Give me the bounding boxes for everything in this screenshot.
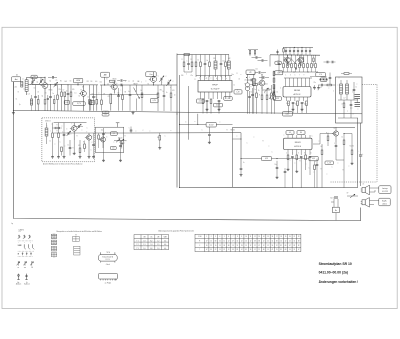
resistor R18 bbox=[225, 62, 227, 67]
svg-text:10u: 10u bbox=[275, 164, 277, 166]
resistor R24 bbox=[315, 64, 317, 68]
capacitor C2 bbox=[49, 96, 52, 98]
wire AF level link bbox=[241, 158, 262, 160]
resistor R20 bbox=[210, 99, 212, 104]
svg-text:C: C bbox=[186, 74, 187, 76]
wire right block verticals join bbox=[335, 152, 337, 160]
svg-text:6k8: 6k8 bbox=[65, 81, 67, 83]
svg-text:15: 15 bbox=[219, 249, 221, 251]
ground C33 bbox=[103, 159, 105, 160]
resistor R47 bbox=[55, 127, 60, 129]
label box speaker 1 bbox=[379, 186, 391, 194]
resistor R42 bbox=[191, 62, 193, 67]
ground R36 bbox=[296, 170, 298, 171]
coil L7 transformer primary bbox=[340, 84, 343, 94]
label box AM bbox=[101, 72, 110, 77]
svg-text:o: o bbox=[284, 135, 285, 137]
svg-text:C7: C7 bbox=[63, 90, 65, 92]
resistor R26 bbox=[297, 101, 299, 106]
svg-text:10: 10 bbox=[245, 236, 247, 238]
svg-text:8: 8 bbox=[304, 153, 305, 155]
resistor R3 bbox=[61, 92, 63, 97]
svg-text:22: 22 bbox=[276, 245, 278, 247]
wire speaker 2 links bbox=[370, 199, 379, 201]
capacitor C55 AM unit bbox=[121, 142, 123, 144]
svg-text:Ta 7642 F: Ta 7642 F bbox=[211, 89, 221, 91]
svg-text:0,1: 0,1 bbox=[105, 114, 107, 116]
svg-text:o: o bbox=[338, 85, 339, 87]
svg-text:St.: St. bbox=[26, 281, 28, 284]
svg-text:2n: 2n bbox=[174, 95, 176, 97]
svg-text:68: 68 bbox=[285, 249, 287, 251]
coil L8 transformer secondary bbox=[346, 84, 349, 94]
ground IC2 b bbox=[301, 108, 303, 109]
svg-text:1k: 1k bbox=[198, 60, 200, 62]
svg-text:ZF2: ZF2 bbox=[228, 58, 231, 60]
svg-text:Messpunkte zur schnellen Fehle: Messpunkte zur schnellen Fehlersuche bei… bbox=[57, 230, 103, 233]
svg-text:R: R bbox=[263, 141, 264, 143]
ground antenna input bbox=[12, 112, 14, 113]
wire RF node dots bbox=[44, 77, 45, 78]
svg-text:8,6 V: 8,6 V bbox=[286, 113, 291, 115]
svg-text:6,7: 6,7 bbox=[52, 244, 54, 246]
svg-text:R: R bbox=[57, 131, 58, 133]
svg-text:1: 1 bbox=[206, 236, 207, 238]
resistor R36 bbox=[296, 155, 298, 160]
svg-text:C: C bbox=[247, 143, 248, 145]
svg-text:11: 11 bbox=[250, 236, 252, 238]
label box top small bbox=[31, 75, 37, 78]
ground mid rail bbox=[132, 111, 134, 112]
svg-text:R: R bbox=[195, 79, 196, 81]
svg-text:o: o bbox=[99, 93, 100, 95]
resistor R32 bbox=[61, 147, 63, 152]
svg-text:C: C bbox=[332, 167, 333, 169]
svg-text:o: o bbox=[237, 136, 238, 138]
svg-text:R: R bbox=[237, 73, 238, 75]
svg-text:8k2: 8k2 bbox=[157, 137, 159, 139]
label box IC3 a bbox=[286, 131, 294, 135]
dashed feedback line vertical bbox=[376, 85, 378, 183]
svg-text:0,5: 0,5 bbox=[52, 250, 54, 252]
svg-text:1k: 1k bbox=[342, 137, 344, 139]
ground IC2 a bbox=[292, 108, 294, 109]
svg-text:1n: 1n bbox=[356, 87, 358, 89]
svg-text:15: 15 bbox=[276, 249, 278, 251]
svg-text:30 mV: 30 mV bbox=[209, 124, 215, 126]
svg-text:10k: 10k bbox=[269, 89, 271, 91]
svg-text:1n5: 1n5 bbox=[95, 81, 97, 83]
resistor R13 bbox=[157, 93, 159, 98]
dashed enclosure UKW tuner unit bbox=[42, 118, 95, 162]
svg-text:o: o bbox=[150, 130, 151, 132]
svg-text:BB109: BB109 bbox=[134, 84, 138, 86]
coil L2 input filter bbox=[25, 80, 28, 92]
svg-text:47: 47 bbox=[289, 245, 291, 247]
capacitor C45 bbox=[34, 96, 37, 98]
svg-text:12: 12 bbox=[267, 245, 269, 247]
resistor R34 bbox=[159, 136, 161, 141]
wire output stage left feed bbox=[269, 55, 271, 67]
wire top rail output stage bbox=[270, 54, 320, 56]
svg-text:BB: BB bbox=[138, 81, 140, 83]
capacitor C34 bbox=[119, 145, 122, 147]
svg-text:C: C bbox=[315, 161, 316, 163]
wire transformer bottom rail bbox=[338, 117, 358, 119]
resistor R1 bbox=[37, 100, 39, 105]
svg-text:R: R bbox=[326, 133, 327, 135]
svg-text:4p: 4p bbox=[37, 82, 39, 84]
label box 9V bbox=[275, 61, 281, 64]
svg-text:an: an bbox=[17, 267, 19, 269]
svg-text:1,6: 1,6 bbox=[143, 248, 145, 250]
svg-text:C: C bbox=[293, 52, 294, 54]
capacitor C22 bbox=[278, 63, 281, 65]
svg-text:NFGR: NFGR bbox=[295, 142, 301, 144]
capacitor C4 bbox=[67, 93, 70, 95]
wire demod node links bbox=[247, 73, 256, 75]
svg-text:C: C bbox=[91, 150, 92, 152]
label box UKW out voltage bbox=[110, 132, 117, 136]
capacitor C7 bbox=[120, 84, 122, 87]
svg-text:A 210 E: A 210 E bbox=[294, 145, 301, 148]
svg-text:C: C bbox=[309, 52, 310, 54]
svg-text:1 3 5 2 4: 1 3 5 2 4 bbox=[105, 259, 110, 261]
svg-text:R: R bbox=[285, 52, 286, 54]
svg-text:C: C bbox=[165, 136, 166, 138]
resistor R8 tall bbox=[110, 94, 112, 104]
svg-text:C: C bbox=[199, 78, 200, 80]
svg-text:14: 14 bbox=[263, 236, 265, 238]
svg-text:0411.00–00.00 (2a): 0411.00–00.00 (2a) bbox=[319, 271, 348, 275]
svg-text:Ant: Ant bbox=[15, 78, 18, 81]
svg-text:L2: L2 bbox=[24, 89, 26, 91]
resistor R39 bbox=[343, 140, 345, 145]
svg-text:R1: R1 bbox=[60, 81, 62, 83]
resistor R30 bbox=[52, 133, 54, 138]
svg-text:o: o bbox=[226, 78, 227, 80]
capacitor C54 bbox=[240, 168, 243, 170]
svg-text:R: R bbox=[259, 95, 260, 97]
DIN connector strip bbox=[99, 273, 118, 279]
resistor R29 bbox=[343, 103, 345, 108]
resistor R19 bbox=[202, 99, 204, 104]
resistor R7 bbox=[96, 100, 98, 105]
svg-text:17: 17 bbox=[276, 236, 278, 238]
capacitor C9 bbox=[129, 94, 132, 96]
wire AF in drop bbox=[240, 133, 242, 168]
svg-text:2,1 V: 2,1 V bbox=[199, 101, 203, 103]
svg-text:o: o bbox=[55, 144, 56, 146]
svg-text:5n: 5n bbox=[251, 92, 253, 94]
svg-text:39k: 39k bbox=[160, 90, 162, 92]
svg-text:UKW M: UKW M bbox=[19, 229, 25, 231]
capacitor C23 bbox=[292, 102, 295, 104]
transformer circle pair bbox=[245, 83, 249, 87]
resistor R16 bbox=[200, 62, 202, 67]
label box voltage IC1 bbox=[224, 97, 232, 101]
svg-text:R: R bbox=[73, 148, 74, 150]
ground UKW 3 bbox=[73, 152, 75, 153]
svg-text:10: 10 bbox=[245, 240, 247, 242]
transistor T9 UKW 2 bbox=[86, 135, 91, 140]
svg-text:C: C bbox=[158, 76, 159, 78]
AF block enclosure bbox=[233, 127, 356, 187]
svg-text:1k: 1k bbox=[234, 85, 236, 87]
svg-text:6,8: 6,8 bbox=[150, 248, 152, 250]
svg-text:C3: C3 bbox=[34, 88, 36, 90]
capacitor C21 bbox=[261, 59, 263, 62]
svg-text:M: M bbox=[18, 254, 20, 256]
svg-text:GY: GY bbox=[347, 193, 349, 195]
svg-text:C 100: C 100 bbox=[198, 236, 202, 238]
resistor R5 bbox=[70, 92, 72, 97]
svg-text:T3: T3 bbox=[112, 82, 114, 84]
resistor R27 bbox=[306, 101, 308, 106]
svg-text:TB TA: TB TA bbox=[106, 251, 110, 254]
svg-text:12: 12 bbox=[228, 249, 230, 251]
resistor R41 bbox=[183, 62, 185, 67]
svg-text:C: C bbox=[47, 126, 48, 128]
resistor R25 bbox=[288, 101, 290, 106]
svg-text:47: 47 bbox=[206, 249, 208, 251]
capacitor C31 trimmer UKW bbox=[67, 132, 69, 135]
resistor R53 bbox=[53, 100, 55, 104]
svg-text:10n: 10n bbox=[295, 104, 297, 106]
svg-text:10n: 10n bbox=[223, 61, 225, 63]
wire T10 collector link bbox=[344, 133, 352, 135]
label box voltage low bbox=[102, 111, 109, 113]
capacitor C26 bbox=[329, 77, 332, 79]
resistor R49 bbox=[351, 150, 353, 155]
svg-text:o: o bbox=[171, 130, 172, 132]
capacitor C41 bbox=[335, 145, 338, 147]
transistor T3 AM mixer bbox=[111, 84, 117, 90]
svg-text:47: 47 bbox=[298, 249, 300, 251]
winding ticks right bbox=[355, 94, 361, 96]
resistor R31 bbox=[58, 133, 60, 138]
svg-text:240: 240 bbox=[15, 87, 17, 89]
label box voltage IC1 b bbox=[214, 103, 223, 107]
label box Osz bbox=[146, 72, 156, 77]
svg-text:C: C bbox=[202, 130, 203, 132]
svg-text:C: C bbox=[334, 143, 335, 145]
svg-text:5: 5 bbox=[295, 75, 296, 77]
svg-text:15: 15 bbox=[267, 249, 269, 251]
svg-text:2k2: 2k2 bbox=[95, 97, 97, 99]
svg-text:c: c bbox=[121, 90, 122, 92]
resistor R33 bbox=[79, 148, 81, 153]
resistor R6 bbox=[89, 100, 91, 105]
wire T10 links bbox=[313, 143, 320, 145]
ground R35 bbox=[287, 168, 289, 169]
resistor R14 bbox=[170, 93, 172, 98]
svg-text:Lautspr.: Lautspr. bbox=[382, 187, 389, 190]
resistor R11 bbox=[122, 95, 124, 100]
transistor T4 oscillator bbox=[150, 76, 156, 82]
svg-text:7,4: 7,4 bbox=[150, 244, 152, 246]
wire jack to return line bbox=[335, 213, 337, 221]
svg-text:33: 33 bbox=[223, 245, 225, 247]
svg-text:K L: K L bbox=[19, 231, 21, 233]
wire UKW box drop bbox=[77, 83, 79, 85]
svg-text:68: 68 bbox=[125, 92, 127, 94]
svg-text:1n: 1n bbox=[53, 93, 55, 95]
svg-text:12: 12 bbox=[254, 249, 256, 251]
svg-text:Änderungszustand 2a gegenüber: Änderungszustand 2a gegenüber Platte Tig… bbox=[159, 230, 194, 233]
coil L6 demod bbox=[252, 79, 255, 86]
svg-text:o: o bbox=[347, 111, 348, 113]
svg-text:C: C bbox=[125, 81, 126, 83]
svg-text:T4: T4 bbox=[148, 84, 150, 86]
label box IC3 b bbox=[297, 131, 305, 135]
svg-text:T5: T5 bbox=[244, 84, 246, 86]
svg-text:UB: UB bbox=[143, 237, 145, 239]
svg-text:R: R bbox=[125, 136, 126, 138]
svg-text:o: o bbox=[329, 88, 330, 90]
svg-text:10: 10 bbox=[55, 244, 57, 246]
svg-text:C1: C1 bbox=[16, 99, 18, 101]
capacitor C53 bbox=[47, 98, 49, 100]
svg-text:C50: C50 bbox=[277, 61, 280, 63]
svg-text:68: 68 bbox=[259, 240, 261, 242]
svg-text:o: o bbox=[357, 84, 358, 86]
transistor T5 IF amp bbox=[259, 80, 265, 86]
svg-text:o: o bbox=[82, 130, 83, 132]
mini table block 3 bbox=[51, 246, 57, 251]
wire IC1 pins bottom bbox=[200, 92, 202, 99]
dashed line horizontal bottom bbox=[331, 181, 378, 183]
diode D5 AM unit bbox=[116, 139, 120, 143]
svg-text:1,5: 1,5 bbox=[157, 244, 159, 246]
resistor R22 bbox=[261, 95, 263, 100]
label box measure point b bbox=[89, 100, 94, 104]
svg-text:T 3: T 3 bbox=[136, 248, 138, 250]
capacitor C6 bbox=[120, 79, 122, 82]
ground C37 bbox=[276, 176, 278, 177]
mini table block 4 bbox=[51, 253, 57, 257]
capacitor C56 bbox=[326, 61, 328, 64]
svg-text:C: C bbox=[87, 128, 88, 130]
capacitor C48 bbox=[92, 144, 95, 146]
wire output stage mid rail bbox=[280, 71, 318, 73]
svg-text:10: 10 bbox=[277, 92, 279, 94]
svg-text:NF: NF bbox=[278, 72, 280, 74]
svg-text:R: R bbox=[83, 142, 84, 144]
svg-text:+: + bbox=[105, 132, 106, 134]
wire long vertical feed x=177 bbox=[176, 54, 178, 188]
svg-text:o: o bbox=[195, 121, 196, 123]
svg-text:1,6: 1,6 bbox=[55, 250, 57, 252]
wire vertical x=188.5 bbox=[188, 86, 190, 140]
label box ZF bbox=[246, 70, 255, 74]
svg-text:o: o bbox=[251, 86, 252, 88]
coil L4 IF transformer bbox=[214, 61, 217, 69]
svg-text:82: 82 bbox=[294, 245, 296, 247]
svg-text:4k7: 4k7 bbox=[321, 146, 323, 148]
svg-text:T: T bbox=[72, 124, 73, 126]
ground output a bbox=[314, 87, 316, 88]
svg-text:R: R bbox=[343, 170, 344, 172]
svg-text:15: 15 bbox=[210, 240, 212, 242]
wire pre-IC1 node bbox=[184, 71, 192, 73]
label box AF voltage bbox=[325, 161, 333, 165]
resistor bank output stage bbox=[283, 64, 285, 68]
svg-text:12: 12 bbox=[237, 245, 239, 247]
svg-text:2: 2 bbox=[211, 236, 212, 238]
diode D1 AFC with arrow bbox=[134, 88, 140, 99]
svg-text:SF245: SF245 bbox=[113, 79, 117, 81]
svg-text:9V: 9V bbox=[75, 235, 77, 237]
svg-text:T 1: T 1 bbox=[136, 240, 138, 242]
capacitor C50 bbox=[316, 164, 319, 166]
ground UKW 2 bbox=[63, 156, 65, 157]
svg-text:1,2V: 1,2V bbox=[236, 91, 239, 93]
svg-text:Bu: Bu bbox=[335, 210, 337, 212]
svg-text:16: 16 bbox=[272, 236, 274, 238]
table 2 change state bbox=[195, 234, 301, 251]
svg-text:10n: 10n bbox=[256, 69, 258, 71]
svg-text:3: 3 bbox=[290, 75, 291, 77]
svg-text:o: o bbox=[65, 146, 66, 148]
svg-text:22: 22 bbox=[298, 236, 300, 238]
capacitor C3 trimmer bbox=[54, 83, 56, 86]
svg-text:0,6 V: 0,6 V bbox=[216, 105, 220, 107]
svg-text:0,5V: 0,5V bbox=[276, 98, 279, 100]
svg-text:UBE: UBE bbox=[164, 237, 167, 239]
label box AF level bbox=[206, 122, 216, 127]
potentiometer volume with arrow bbox=[271, 93, 273, 99]
svg-text:1,4: 1,4 bbox=[91, 102, 93, 104]
svg-text:o: o bbox=[136, 131, 137, 133]
svg-text:UC: UC bbox=[150, 237, 152, 239]
svg-text:4,7: 4,7 bbox=[344, 98, 346, 100]
wire main signal bus y=85 bbox=[28, 84, 177, 86]
svg-text:4 fach: 4 fach bbox=[106, 264, 110, 266]
ground UKW 4 bbox=[88, 156, 90, 157]
svg-text:A 210 K: A 210 K bbox=[293, 93, 301, 96]
svg-text:22: 22 bbox=[210, 245, 212, 247]
svg-text:0,6: 0,6 bbox=[66, 102, 68, 104]
label box AF out a bbox=[262, 157, 272, 161]
svg-text:ZF1: ZF1 bbox=[213, 58, 216, 60]
resistor R23 bbox=[266, 95, 268, 100]
svg-text:10k: 10k bbox=[117, 93, 119, 95]
wire UKW out bbox=[96, 132, 131, 134]
svg-text:1,2V: 1,2V bbox=[226, 98, 229, 100]
svg-text:33: 33 bbox=[210, 249, 212, 251]
svg-text:68: 68 bbox=[263, 249, 265, 251]
svg-text:C: C bbox=[249, 77, 250, 79]
svg-text:C5: C5 bbox=[56, 80, 58, 82]
IC U2 box A210K bbox=[283, 87, 311, 98]
label box AF out b bbox=[309, 156, 318, 160]
svg-text:0,2: 0,2 bbox=[320, 87, 322, 89]
svg-text:4: 4 bbox=[219, 236, 220, 238]
wire IC3 pins bottom bbox=[287, 150, 289, 156]
AM unit solid box bbox=[95, 127, 123, 152]
svg-text:C: C bbox=[143, 130, 144, 132]
diode D4 bbox=[120, 139, 125, 142]
svg-text:C: C bbox=[272, 152, 273, 154]
transistor T8 UKW bbox=[71, 126, 77, 132]
svg-text:+: + bbox=[362, 154, 363, 156]
svg-text:2: 2 bbox=[24, 242, 25, 244]
svg-text:82: 82 bbox=[280, 249, 282, 251]
capacitor C33 electrolytic bbox=[102, 133, 105, 135]
resistor R45 bbox=[57, 95, 59, 100]
ground C54 bbox=[240, 174, 242, 175]
